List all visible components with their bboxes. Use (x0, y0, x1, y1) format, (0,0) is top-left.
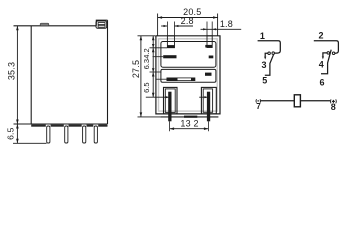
body inner gray band (159, 39, 218, 111)
pin side 1 (47, 126, 50, 143)
dim 20.5 arrow right (213, 16, 218, 19)
svg-text:13 2: 13 2 (180, 119, 198, 129)
pin 4 arrowhead (322, 56, 324, 59)
contact 1 fixed circle B (272, 52, 275, 55)
left dim column vertical line (152, 36, 154, 97)
compartment 1 (161, 42, 216, 68)
dim 6.5 arrow up (16, 124, 19, 129)
dim 27.5 bottom ext (138, 116, 161, 118)
middle-left bar leader (153, 56, 164, 58)
dim 20.5 right extension (217, 14, 219, 36)
body bottom edge with left extension (14, 123, 108, 125)
boundary leader y72 (150, 71, 162, 73)
contact 2 blade and pin 6 wire (321, 50, 331, 74)
pin side 4 (94, 126, 97, 143)
svg-text:4: 4 (319, 60, 324, 70)
base segment 5 (98, 125, 107, 127)
svg-text:6.3: 6.3 (142, 59, 151, 69)
pin 1 wire (258, 41, 281, 53)
svg-text:3: 3 (261, 60, 266, 70)
latch bump on top (40, 23, 49, 26)
coil rectangle (294, 95, 300, 107)
dim 6.5 extension line at pin tips (13, 142, 47, 144)
dim 35.3 arrow up (16, 26, 19, 31)
svg-text:2: 2 (318, 31, 323, 41)
dim 20.5 arrow left (158, 16, 163, 19)
svg-text:35.3: 35.3 (7, 62, 17, 80)
dim 13.2 line (170, 128, 209, 130)
body top edge with left extension (14, 25, 97, 27)
bottom right pin block inner (203, 89, 212, 112)
svg-text:7: 7 (256, 102, 261, 111)
svg-text:6.5: 6.5 (6, 127, 16, 139)
base segment 4 (87, 125, 94, 127)
compartment 2 (161, 69, 216, 82)
dim 1.8 extension lines (206, 22, 208, 36)
body right edge (107, 20, 109, 124)
svg-text:8: 8 (331, 102, 336, 112)
pin 3 arm (265, 53, 268, 57)
long blade black right tip (191, 78, 195, 81)
dim 6.5 arrow down (16, 139, 19, 144)
flag inner bar upper (98, 23, 105, 25)
dim 20.5 line (158, 17, 218, 19)
contact 1 fixed circle A (268, 52, 271, 55)
dim 6.5 line (16, 124, 18, 143)
dim 35.3 line (16, 26, 18, 124)
flag inner bar lower (98, 25, 105, 27)
top-left pin slot (167, 36, 174, 48)
bottom left pin block inner (165, 89, 175, 113)
dim 27.5 top ext (138, 35, 156, 37)
top-left pin black (167, 45, 174, 48)
dim 35.3 arrow down (16, 120, 19, 125)
base segment 2 (51, 125, 64, 127)
leader arrow into left block (146, 96, 168, 98)
svg-text:1.8: 1.8 (220, 19, 233, 29)
pin side 3 (83, 126, 86, 143)
arrows at 47.8 (152, 44, 155, 48)
left dim arrow up at top (152, 36, 155, 41)
base segment 1 (31, 125, 46, 127)
contact 2 fixed circle A (327, 52, 330, 55)
body outer rect (156, 36, 220, 114)
dim 2.8 line and outside arrows (161, 25, 167, 27)
boundary leader y47.8 (150, 47, 168, 49)
bottom left pin block outer (164, 87, 178, 114)
blade attachment line (157, 78, 167, 80)
coil polarity plus (331, 99, 337, 103)
top right step (96, 20, 107, 26)
svg-text:6: 6 (319, 77, 324, 87)
pin 3 arrowhead (264, 57, 266, 60)
flag block outline (96, 21, 107, 28)
bottom right pin black bar (207, 92, 210, 122)
coil polarity minus (256, 99, 261, 102)
top-right pin black (205, 45, 212, 48)
coil wire right (300, 100, 330, 102)
svg-text:6.5: 6.5 (142, 82, 151, 92)
body left edge (30, 26, 32, 124)
pin side 2 (65, 126, 68, 143)
pin 4 arm (323, 53, 327, 57)
middle-right pin black rect (209, 56, 214, 59)
long blade outline (167, 78, 195, 81)
bottom right pin block outer (201, 87, 216, 114)
leader arrow into right block (199, 96, 206, 98)
dim 2.8 extension lines (166, 22, 168, 36)
bottom left pin black bar (168, 92, 171, 122)
dim 13.2 arrows (170, 127, 175, 130)
svg-text:2.8: 2.8 (181, 16, 194, 26)
contact 1 blade and pin 5 wire (265, 54, 274, 75)
dim 27.5 arrows (140, 36, 143, 41)
coil wire left (261, 100, 294, 102)
arrow down at 97.2 (152, 93, 155, 98)
base plate thick middle segment (184, 116, 197, 118)
middle-left pin black bar (163, 55, 176, 58)
dim 27.5 line (140, 36, 142, 117)
dim 20.5 left extension (157, 14, 159, 36)
pin 2 wire (314, 41, 339, 54)
svg-text:5: 5 (262, 76, 267, 86)
dim 1.8 line and outside arrows (201, 28, 242, 30)
svg-text:4.2: 4.2 (142, 48, 151, 58)
contact 2 fixed circle B (332, 52, 335, 55)
compartment2 right black rect (205, 73, 212, 76)
svg-text:27.5: 27.5 (131, 60, 141, 78)
svg-text:1: 1 (260, 31, 265, 41)
long blade black left (167, 78, 178, 81)
base plate line (160, 116, 218, 118)
arrows at 72 (152, 68, 155, 72)
top-right pin slot (207, 36, 212, 48)
dim 13.2 extensions (169, 121, 171, 131)
base segment 3 (69, 125, 82, 127)
